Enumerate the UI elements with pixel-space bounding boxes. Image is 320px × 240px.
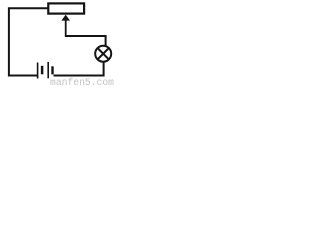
svg-text:manfen5.com: manfen5.com [50,77,114,87]
